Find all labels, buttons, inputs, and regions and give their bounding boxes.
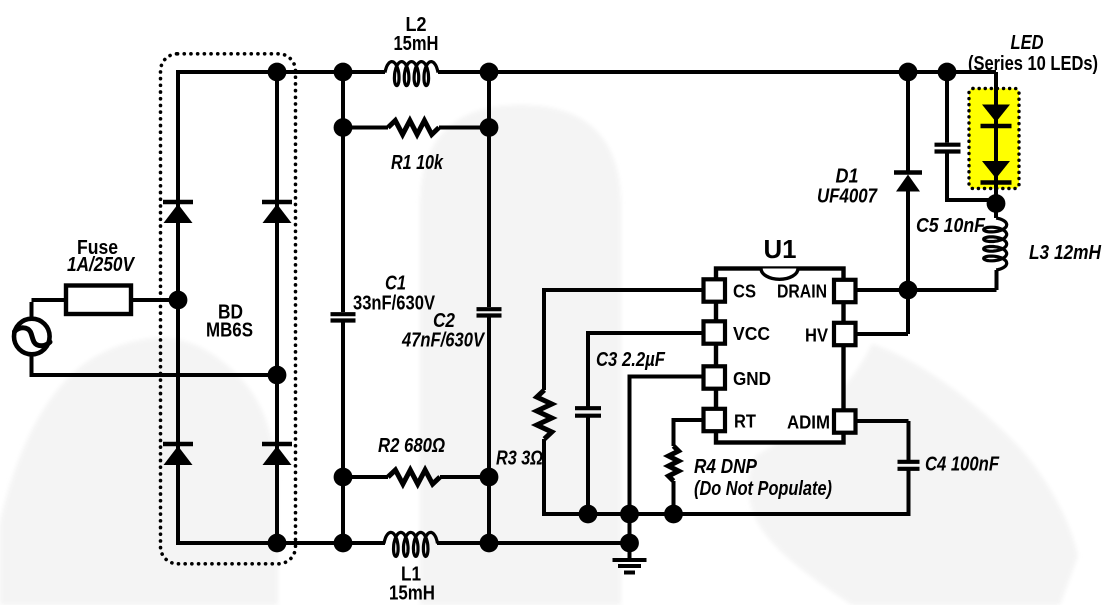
- svg-text:15mH: 15mH: [389, 583, 435, 605]
- svg-text:R4 DNP: R4 DNP: [694, 456, 758, 478]
- svg-text:(Series 10 LEDs): (Series 10 LEDs): [968, 53, 1098, 75]
- svg-text:DRAIN: DRAIN: [777, 281, 827, 302]
- svg-text:MB6S: MB6S: [206, 320, 253, 342]
- svg-text:LED: LED: [1011, 32, 1044, 54]
- svg-text:C4 100nF: C4 100nF: [925, 454, 1000, 476]
- svg-text:C5 10nF: C5 10nF: [916, 215, 986, 237]
- svg-text:R1 10k: R1 10k: [391, 152, 444, 174]
- svg-text:D1: D1: [836, 166, 859, 188]
- svg-text:R3 3Ω: R3 3Ω: [496, 448, 543, 470]
- svg-text:C1: C1: [385, 273, 406, 295]
- svg-text:HV: HV: [805, 325, 829, 346]
- svg-text:CS: CS: [733, 281, 756, 302]
- svg-text:C3 2.2µF: C3 2.2µF: [596, 349, 666, 371]
- svg-text:RT: RT: [734, 411, 757, 432]
- svg-text:1A/250V: 1A/250V: [67, 254, 135, 276]
- svg-text:(Do Not Populate): (Do Not Populate): [694, 478, 832, 500]
- svg-text:15mH: 15mH: [394, 33, 439, 55]
- svg-text:VCC: VCC: [733, 323, 770, 344]
- svg-text:UF4007: UF4007: [817, 186, 878, 208]
- svg-text:47nF/630V: 47nF/630V: [401, 330, 485, 352]
- svg-text:ADIM: ADIM: [787, 412, 830, 433]
- svg-text:R2 680Ω: R2 680Ω: [378, 435, 445, 457]
- svg-text:GND: GND: [733, 368, 771, 389]
- svg-text:U1: U1: [764, 234, 797, 264]
- svg-text:33nF/630V: 33nF/630V: [353, 293, 436, 315]
- svg-text:L3 12mH: L3 12mH: [1029, 242, 1101, 264]
